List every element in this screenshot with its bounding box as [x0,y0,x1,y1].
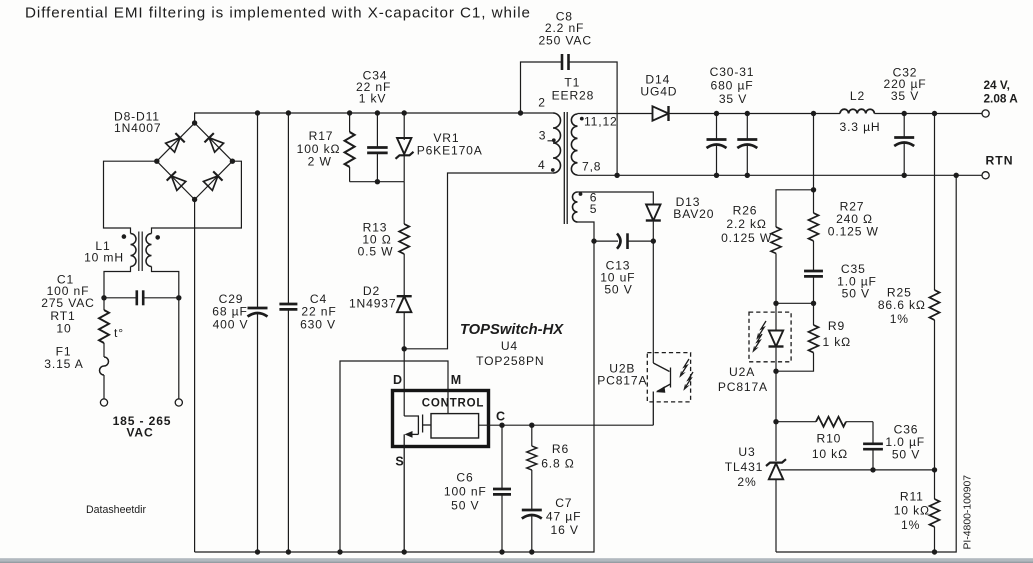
node M wire bottom [337,549,342,554]
node C7 bottom [529,549,534,554]
svg-text:2.08 A: 2.08 A [984,92,1019,106]
wire drain into U4 box [403,349,405,416]
svg-text:35 V: 35 V [719,92,747,106]
svg-text:1N4007: 1N4007 [114,121,161,135]
wire RTN rail [578,174,983,176]
bottom rail primary [195,222,594,552]
terminal 24V output [982,110,989,117]
capacitor C7 [522,510,542,519]
svg-text:0.125 W: 0.125 W [721,231,772,245]
node C8 right bottom [614,173,619,178]
node pre-L2 tap [811,111,816,116]
wire C pin to U2B emitter [479,424,654,426]
resistor R26 [771,227,781,253]
svg-text:2: 2 [538,96,546,110]
node feedback tap [811,187,816,192]
svg-text:TOP258PN: TOP258PN [476,354,544,368]
svg-text:C: C [496,410,505,424]
resistor R25 wires [934,114,936,291]
svg-text:11,12: 11,12 [584,115,618,129]
shunt regulator U3 TL431 [769,463,783,479]
svg-text:2.2 kΩ: 2.2 kΩ [726,217,766,231]
node C36 bottom ref [870,467,875,472]
optocoupler U2A LED [775,303,777,331]
svg-text:S: S [395,455,403,469]
node drain junction [402,346,407,351]
svg-text:R9: R9 [828,319,845,333]
svg-text:P6KE170A: P6KE170A [417,144,483,158]
light arrows out of U2A [757,321,766,339]
capacitor C35 [804,271,823,276]
resistor R27 [813,190,815,213]
node T1 pin3 tap dot [552,138,556,142]
bottom gray bar [0,558,1033,563]
node C34 top [375,110,380,115]
node C6 bottom [499,549,504,554]
capacitor C29 [248,308,268,317]
resistor R10 wires [776,421,816,423]
svg-text:D: D [393,373,402,387]
node U2A cathode R9 [773,369,778,374]
svg-text:BAV20: BAV20 [673,207,714,221]
capacitor C34 branch wire [376,113,378,148]
resistor R10 [816,417,846,427]
node bridge right [230,159,235,164]
svg-text:R11: R11 [900,489,924,503]
svg-text:1%: 1% [901,518,920,532]
capacitor C4 branch wire [287,113,289,304]
node R11 bottom [932,549,937,554]
svg-text:2 W: 2 W [308,155,332,169]
node C32 top [902,111,907,116]
capacitor C13 [617,234,621,249]
node C31 bottom [745,173,750,178]
diode D2 1N4937 [397,296,412,312]
wire secondary output top [578,113,653,115]
svg-text:T1: T1 [564,76,580,90]
node C8 left [518,110,523,115]
svg-text:100 nF: 100 nF [444,485,487,499]
capacitor C34 [367,148,388,153]
node C29 bottom [255,549,260,554]
svg-text:47 µF: 47 µF [546,510,581,524]
inductor L1 common-mode choke [131,232,152,272]
svg-text:3.15 A: 3.15 A [44,357,83,371]
svg-text:1%: 1% [890,312,909,326]
node T1 secondary phase dot [580,117,584,121]
diode D13 BAV20 [646,205,661,221]
capacitor C32 [903,114,905,138]
terminal right AC input [175,399,182,406]
wire bridge right node to L1 right winding [152,161,242,233]
wire to R26 [776,190,814,227]
node ref R25 R11 [932,467,937,472]
capacitor C29 branch wire [257,113,259,308]
svg-text:U2A: U2A [729,365,755,379]
resistor R13 [399,224,409,254]
capacitor C36 [863,444,883,449]
capacitor C31 [746,114,748,140]
svg-text:2%: 2% [737,475,756,489]
svg-text:10 kΩ: 10 kΩ [812,447,848,461]
transformer T1 secondary winding 11,12 7,8 [571,114,577,175]
node C35 bottom [811,301,816,306]
node R6 tap [529,423,534,428]
svg-text:PC817A: PC817A [718,380,768,394]
svg-text:CONTROL: CONTROL [422,398,484,410]
terminal RTN [982,172,989,179]
capacitor C6 wires [501,425,503,489]
node R25 top [932,111,937,116]
diode D14 UG4D [653,106,669,121]
resistor R11 [934,470,936,499]
wire M pin [340,361,448,552]
capacitor C8 [562,54,569,70]
resistor R17 [345,132,355,167]
wire R26-C35 tie [776,302,814,304]
resistor R25 [930,290,940,320]
svg-text:86.6 kΩ: 86.6 kΩ [878,298,926,312]
svg-text:1N4937: 1N4937 [349,297,396,311]
wire feedback tap pre-L2 down [813,114,815,190]
wire bridge bottom node down to bottom rail [194,200,196,553]
node S wire bottom [402,549,407,554]
resistor R6 wires [531,425,533,446]
thermistor RT1 [103,298,105,310]
svg-text:PC817A: PC817A [597,374,647,388]
svg-text:3.3 µH: 3.3 µH [840,120,881,134]
svg-text:7,8: 7,8 [582,160,601,174]
U4 control inner rect [431,414,479,438]
wire L1 right bottom to C1 right node [152,267,179,399]
capacitor C4 [279,304,297,309]
wire secondary ground rail [776,175,956,552]
svg-text:250 VAC: 250 VAC [538,34,591,48]
capacitor C8 wires [521,62,562,113]
node T1 bias phase dot [579,192,583,196]
wire drain junction to primary pin4 [404,173,553,349]
svg-text:24 V,: 24 V, [984,78,1010,92]
light arrows into U2B [680,359,689,377]
svg-text:VAC: VAC [126,426,153,440]
svg-text:PI-4800-100907: PI-4800-100907 [963,475,974,550]
svg-text:68 µF: 68 µF [212,305,247,319]
svg-text:35 V: 35 V [891,89,919,103]
node C34 bottom [375,179,380,184]
svg-text:Differential EMI filtering is: Differential EMI filtering is implemente… [25,5,531,22]
node R26 bottom [773,301,778,306]
svg-text:275 VAC: 275 VAC [41,296,94,310]
resistor R6 [527,446,537,470]
diode D11 bottom-right [203,171,222,190]
TVS VR1 P6KE170A [397,138,411,154]
fuse F1 [103,343,105,357]
svg-text:3: 3 [539,129,547,143]
wire clamp bottom tie [350,181,405,183]
svg-text:10 kΩ: 10 kΩ [894,503,930,517]
svg-text:50 V: 50 V [892,448,920,462]
optocoupler U2B phototransistor [652,241,654,363]
wire bridge left node to L1 left winding [104,161,157,233]
capacitor C6 [493,489,511,494]
node VR1 top [402,110,407,115]
transformer T1 primary winding [553,113,561,173]
svg-text:1 kΩ: 1 kΩ [823,335,852,349]
svg-text:C30-31: C30-31 [710,65,755,79]
resistor R13 wire [403,182,405,224]
wire top bus primary [195,113,553,123]
resistor R17 branch wire [349,113,351,132]
svg-text:R6: R6 [552,442,569,456]
node C32 bottom [902,173,907,178]
svg-text:5: 5 [590,202,598,216]
node T1 primary phase dot [551,168,555,172]
svg-text:RTN: RTN [986,154,1014,168]
svg-text:L2: L2 [850,89,865,103]
resistor R9 [813,303,815,325]
svg-text:22 nF: 22 nF [301,305,336,319]
svg-text:U4: U4 [501,339,518,353]
node C30 top [714,111,719,116]
transformer T1 bias winding 6,5 [573,192,578,222]
node C4 top [286,110,291,115]
wire TL431 ref [781,469,935,471]
U4 MOSFET internals [404,415,431,553]
inductor L2 [840,109,874,113]
U4 TOPSwitch CONTROL box [393,391,489,447]
node C13 left [591,238,596,243]
svg-text:50 V: 50 V [842,287,870,301]
node C6 tap [499,423,504,428]
svg-text:0.125 W: 0.125 W [828,225,879,239]
svg-text:M: M [451,373,461,387]
node C13 right [651,238,656,243]
bridge rectifier D8-D11 diamond wires [157,123,233,200]
svg-text:10: 10 [56,322,71,336]
diode D9 top-right [204,133,223,152]
svg-text:630 V: 630 V [300,318,336,332]
svg-text:EER28: EER28 [552,89,595,103]
svg-text:10 mH: 10 mH [84,251,124,265]
node R10 tap [773,419,778,424]
node R17 top [347,110,352,115]
diode D8 top-left [165,133,184,152]
wire L1 left bottom to C1 left node [104,267,131,298]
svg-text:4: 4 [538,158,546,172]
svg-text:400 V: 400 V [213,318,249,332]
svg-text:680 µF: 680 µF [711,79,754,93]
svg-text:1 kV: 1 kV [359,92,387,106]
node C29 top [255,110,260,115]
capacitor C1 [104,290,179,305]
svg-text:UG4D: UG4D [640,85,677,99]
capacitor C13 wires [594,240,618,242]
svg-text:C7: C7 [555,496,572,510]
svg-text:TOPSwitch-HX: TOPSwitch-HX [460,322,564,338]
svg-text:50 V: 50 V [604,283,632,297]
svg-text:TL431: TL431 [725,460,764,474]
capacitor C30 [716,114,718,140]
wire U2A cathode to TL431 [775,371,777,461]
svg-text:R17: R17 [309,129,334,143]
svg-text:0.5 W: 0.5 W [358,245,394,259]
svg-text:t°: t° [114,326,124,340]
node C30 bottom [714,173,719,178]
svg-text:R10: R10 [817,432,842,446]
node C31 top [745,111,750,116]
svg-text:Datasheetdir: Datasheetdir [86,504,147,516]
svg-text:U3: U3 [738,445,755,459]
svg-text:C6: C6 [456,471,473,485]
wire bias pin6 to D13 [578,192,654,205]
svg-text:6.8 Ω: 6.8 Ω [541,457,574,471]
node bridge bottom [192,197,197,202]
diode D10 bottom-left [167,171,186,190]
TVS VR1 branch wire [403,113,405,140]
node C4 bottom [286,549,291,554]
transformer T1 core [563,112,565,224]
terminal left AC input [100,399,107,406]
node bridge left [154,159,159,164]
node RTN ground riser [954,173,959,178]
svg-text:50 V: 50 V [451,499,479,513]
svg-text:16 V: 16 V [551,523,579,537]
node bridge top [192,120,197,125]
svg-text:R26: R26 [733,203,758,217]
